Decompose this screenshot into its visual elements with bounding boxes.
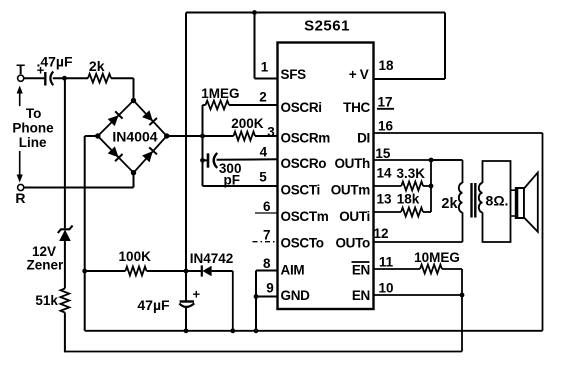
- node 100K left junction: [82, 269, 87, 274]
- svg-text:14: 14: [376, 166, 392, 181]
- wire pin 5: [203, 185, 278, 187]
- svg-text:8Ω.: 8Ω.: [486, 193, 509, 209]
- zener diode D5 12V: [59, 230, 71, 241]
- node 3.3K junction: [429, 184, 434, 189]
- op-amp U1 S2561 IC body: [278, 43, 374, 310]
- node pin 9 junction: [254, 294, 259, 299]
- stub pin 6: [255, 212, 278, 214]
- svg-text:10: 10: [378, 281, 393, 296]
- node cap on rail A: [184, 328, 189, 333]
- svg-text:.47µF: .47µF: [36, 54, 73, 70]
- svg-text:THC: THC: [343, 100, 370, 115]
- wire to 100K: [85, 270, 126, 272]
- svg-text:OSCTi: OSCTi: [281, 183, 321, 198]
- wire 2k to bridge top: [111, 77, 134, 79]
- wire pin 11 down to rail B: [461, 269, 463, 352]
- wire pin 1 stub: [255, 78, 278, 80]
- svg-text:18: 18: [378, 58, 394, 73]
- svg-text:OSCRm: OSCRm: [281, 131, 331, 146]
- svg-text:6: 6: [263, 199, 271, 214]
- svg-text:IN4004: IN4004: [112, 129, 157, 145]
- diode D1 (left-top side): [108, 111, 123, 126]
- svg-text:12: 12: [373, 226, 388, 241]
- wire pin 11 + resistor R8 10MEG: [374, 268, 421, 270]
- svg-text:OSCRo: OSCRo: [281, 156, 327, 171]
- svg-text:T: T: [16, 61, 25, 77]
- wire pin 18 +V: [374, 78, 446, 80]
- svg-text:GND: GND: [281, 288, 311, 303]
- node pin 10 junction: [460, 293, 465, 298]
- resistor R3 100K: [125, 267, 146, 276]
- svg-text:3.3K: 3.3K: [397, 166, 426, 181]
- svg-text:3: 3: [267, 125, 275, 140]
- svg-text:OSCTm: OSCTm: [281, 209, 329, 224]
- node +V / cap junction: [184, 269, 189, 274]
- wire DI vertical right side: [542, 133, 544, 331]
- svg-text:18k: 18k: [397, 192, 420, 207]
- wire pin 14 + resistor R6 3.3K: [374, 185, 402, 187]
- wire vertical 15-14-13: [430, 160, 432, 212]
- resistor R1 2k: [88, 74, 111, 83]
- svg-text:2k: 2k: [441, 196, 458, 212]
- svg-text:7: 7: [263, 228, 271, 243]
- diode D2 (top-right side): [142, 110, 157, 125]
- svg-text:2k: 2k: [89, 58, 105, 74]
- svg-text:15: 15: [375, 146, 391, 161]
- wire pin 16 DI: [374, 132, 543, 134]
- arrow down to R: [19, 151, 21, 176]
- transformer T1 primary: [462, 160, 464, 183]
- diode bridge IN4004 diamond: [98, 101, 167, 173]
- wire pin 13 + resistor R7 18k: [374, 211, 402, 213]
- wire 100K to node: [147, 270, 187, 272]
- bridge corner nodes: [131, 98, 136, 103]
- svg-text:8: 8: [263, 256, 271, 271]
- svg-text:+: +: [193, 287, 201, 302]
- svg-text:OSCTo: OSCTo: [281, 236, 324, 251]
- svg-text:16: 16: [378, 119, 394, 134]
- wire bridge right corner to 200K node: [167, 135, 203, 137]
- diode D3 (left-bottom side): [108, 146, 123, 161]
- svg-text:SFS: SFS: [281, 67, 307, 82]
- speaker SP1: [511, 189, 516, 191]
- capacitor C1 .47uF polarized: [44, 72, 46, 86]
- transformer core: [470, 183, 472, 218]
- node T line / zener column junction: [62, 76, 67, 81]
- wire node to diode: [186, 270, 202, 272]
- wire capacitor to 2k: [53, 77, 88, 79]
- svg-text:Line: Line: [19, 135, 47, 150]
- wire bridge left corner to left column: [85, 135, 98, 137]
- node diode branch on rail A: [230, 328, 235, 333]
- wire rail B (bottom EN rail): [65, 351, 462, 353]
- svg-text:1MEG: 1MEG: [201, 86, 239, 101]
- wire diode to corner: [212, 270, 233, 272]
- terminal T: [18, 75, 24, 81]
- wire pin 15 OUTh: [374, 159, 463, 161]
- node GND on rail A: [254, 328, 259, 333]
- EN overline: [352, 261, 370, 263]
- svg-text:S2561: S2561: [304, 18, 350, 35]
- svg-text:Phone: Phone: [12, 121, 54, 136]
- wire left column from top to 100K node: [185, 13, 187, 272]
- svg-text:EN: EN: [352, 263, 370, 278]
- diode D4 (bottom-right side): [142, 147, 157, 162]
- svg-text:To: To: [26, 106, 42, 121]
- svg-text:1: 1: [261, 60, 269, 75]
- wire pin 9 GND: [256, 296, 278, 298]
- wire R to bridge bottom: [24, 187, 134, 189]
- svg-text:10MEG: 10MEG: [414, 250, 460, 265]
- wire pin 1 branch vertical: [254, 13, 256, 79]
- svg-text:OUTi: OUTi: [339, 209, 370, 224]
- wire pin 8 AIM: [256, 270, 278, 272]
- wire node column: [202, 105, 204, 186]
- node junction top wire / pin1 branch: [252, 10, 257, 15]
- wire right vertical to pin 18: [444, 13, 446, 80]
- svg-text:2: 2: [259, 90, 267, 105]
- svg-text:R: R: [15, 190, 25, 206]
- svg-text:4: 4: [260, 145, 268, 160]
- svg-text:9: 9: [266, 281, 274, 296]
- wire pin 12 OUTo: [374, 241, 463, 243]
- svg-text:+ V: + V: [349, 67, 369, 82]
- capacitor C3 300pF: [200, 158, 205, 163]
- node 200K junction: [200, 134, 205, 139]
- svg-text:OUTh: OUTh: [334, 156, 370, 171]
- svg-text:OUTm: OUTm: [331, 183, 371, 198]
- svg-text:5: 5: [259, 170, 267, 185]
- terminal R: [18, 184, 24, 190]
- stub pin 7 dash-dot: [253, 241, 278, 243]
- svg-text:OSCRi: OSCRi: [281, 100, 322, 115]
- capacitor C2 47uF: [185, 271, 187, 301]
- wire T to capacitor: [24, 77, 44, 79]
- resistor R4 1MEG: [203, 104, 206, 106]
- svg-text:51k: 51k: [35, 293, 58, 308]
- resistor R2 51k: [61, 289, 70, 313]
- resistor R5 200K: [203, 135, 234, 137]
- svg-text:17: 17: [377, 95, 392, 110]
- svg-text:13: 13: [376, 192, 392, 207]
- wire 51k to bottom rail: [64, 313, 66, 353]
- wire zener column: [64, 78, 66, 228]
- wire pin15 node to primary: [431, 159, 463, 161]
- svg-text:Zener: Zener: [27, 258, 65, 273]
- svg-text:100K: 100K: [119, 249, 152, 264]
- node pin15 junction: [429, 158, 434, 163]
- diode D6 IN4742: [201, 265, 203, 276]
- svg-text:EN: EN: [352, 288, 370, 303]
- wire top +V loop: [186, 12, 445, 14]
- transformer T1 secondary / 8 ohm box: [483, 161, 511, 242]
- svg-text:OUTo: OUTo: [335, 236, 370, 251]
- wire zener to 51k: [64, 241, 66, 289]
- svg-text:200K: 200K: [231, 116, 264, 131]
- wire pin 10 EN: [374, 294, 463, 296]
- svg-text:IN4742: IN4742: [190, 251, 234, 266]
- wire rail A (ground rail): [85, 330, 543, 332]
- stub pin 17 underline: [377, 108, 394, 110]
- svg-text:AIM: AIM: [281, 263, 305, 278]
- arrow up to T: [19, 92, 21, 106]
- svg-text:47µF: 47µF: [137, 297, 170, 313]
- svg-text:DI: DI: [357, 131, 370, 146]
- svg-text:11: 11: [379, 255, 394, 270]
